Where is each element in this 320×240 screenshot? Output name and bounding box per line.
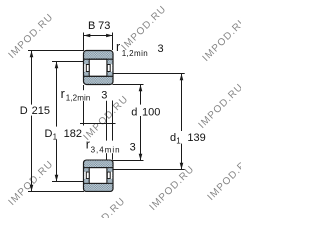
arrow D down <box>30 185 34 192</box>
svg-text:D: D <box>20 105 28 117</box>
bearing cross-section: bottom half (mirrored) <box>84 160 114 191</box>
ext line D bottom <box>28 191 84 193</box>
arrow d1 up <box>180 74 184 81</box>
svg-text:73: 73 <box>98 20 110 32</box>
label d1 139 <box>170 132 206 145</box>
arrow d up <box>139 85 143 92</box>
svg-text:r: r <box>116 40 120 54</box>
arrow d1 down <box>180 163 184 170</box>
svg-text:1: 1 <box>176 136 181 145</box>
axis line <box>80 123 116 125</box>
svg-text:3,4min: 3,4min <box>91 146 120 155</box>
ext line d top <box>113 84 144 86</box>
ext line d1 bottom <box>113 169 185 171</box>
svg-text:3: 3 <box>130 142 136 154</box>
raceway line top <box>84 58 113 60</box>
svg-text:B: B <box>88 20 95 32</box>
ext line B left <box>83 33 85 51</box>
dim line d1 <box>181 74 183 170</box>
watermark IMPOD.RU top-left <box>7 4 255 240</box>
dim line D1 <box>56 62 58 182</box>
svg-text:215: 215 <box>32 105 50 117</box>
ext line B right <box>112 33 114 51</box>
dim line B <box>84 35 113 37</box>
ext line D1 top <box>52 61 84 63</box>
cage right <box>107 65 110 72</box>
svg-text:D: D <box>45 128 53 140</box>
svg-text:3: 3 <box>158 43 164 55</box>
label B 73 <box>88 20 110 32</box>
label D1 182 <box>45 128 82 142</box>
ext line D top <box>28 50 84 52</box>
arrow d down <box>139 154 143 161</box>
svg-text:100: 100 <box>142 106 160 118</box>
svg-text:3: 3 <box>101 90 107 102</box>
raceway line bottom <box>84 75 113 77</box>
svg-text:1: 1 <box>53 132 58 141</box>
svg-text:1,2min: 1,2min <box>66 94 91 103</box>
ext line d1 top <box>113 73 185 75</box>
ext line d bottom <box>113 160 144 162</box>
ext line D1 bottom <box>52 181 84 183</box>
label r 1,2min 3 (middle) <box>61 87 108 103</box>
svg-text:r: r <box>86 138 90 152</box>
bore edge line mid <box>106 101 108 160</box>
outer+inner ring silhouette <box>84 51 114 85</box>
svg-text:d: d <box>131 106 137 118</box>
dim line D <box>31 51 33 192</box>
bore edge line right <box>112 101 114 160</box>
label backgrounds <box>19 90 209 153</box>
arrow D1 down <box>55 175 59 182</box>
svg-text:d: d <box>170 132 176 144</box>
bearing cross-section: top half (outer ring, rollers, cage, inner ring) <box>84 51 114 85</box>
label r 3,4min 3 <box>86 138 136 155</box>
gap left of cage <box>84 64 89 72</box>
arrow B right <box>106 34 113 38</box>
label r 1,2min 3 (top) <box>116 40 164 58</box>
svg-text:182: 182 <box>64 128 82 140</box>
label d 100 <box>131 106 160 118</box>
roller (white) <box>89 59 107 76</box>
svg-text:139: 139 <box>187 132 205 144</box>
arrows <box>30 34 184 192</box>
svg-text:r: r <box>61 87 65 101</box>
arrow D1 up <box>55 62 59 69</box>
cage left <box>86 65 89 72</box>
arrow B left <box>84 34 91 38</box>
label D 215 <box>20 105 50 117</box>
gap right of cage <box>107 64 112 72</box>
dim line d <box>140 85 142 161</box>
svg-text:1,2min: 1,2min <box>122 49 148 58</box>
arrow D up <box>30 51 34 58</box>
bore edge line left <box>83 85 85 126</box>
